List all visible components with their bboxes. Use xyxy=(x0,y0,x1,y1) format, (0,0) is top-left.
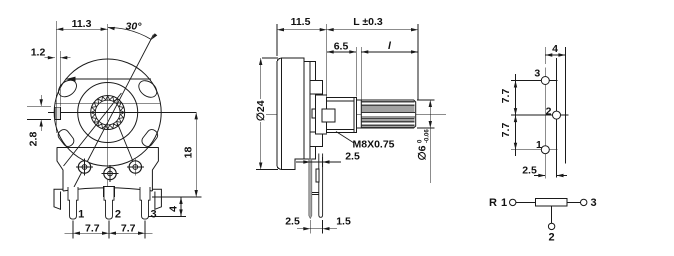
side view: bushing end inner line xyxy=(353,98,355,133)
front view: left support lug xyxy=(54,189,63,209)
front view: terminal hole 1 inner xyxy=(82,165,87,170)
side view: shaft neck top xyxy=(356,99,361,101)
footprint dimension 7.7 (top) xyxy=(515,74,517,115)
front view: slot second edge line xyxy=(64,93,122,166)
front view: terminal hole 1 outer xyxy=(78,161,90,173)
schematic: wire resistor to 3 xyxy=(567,201,581,203)
front view: hole 2 crosshair h xyxy=(102,173,119,175)
front view: hole 3 crosshair v xyxy=(134,159,136,176)
dimension dia 6 shaft xyxy=(417,99,435,101)
schematic: terminal 3 circle xyxy=(581,199,587,205)
side view: plate notch xyxy=(312,109,316,118)
svg-text:11.5: 11.5 xyxy=(291,16,311,28)
dimension 2.5 upper (pin stagger) xyxy=(322,157,324,167)
front view: base bottom arc xyxy=(63,188,152,191)
front view: left crimp tab xyxy=(56,128,76,149)
side view: bushing mount plate xyxy=(316,95,327,134)
svg-text:7.7: 7.7 xyxy=(500,123,512,138)
side view: threaded bushing M8 xyxy=(327,98,357,133)
dimension 18 xyxy=(152,196,202,198)
footprint: pad 2 xyxy=(553,111,561,119)
footprint: pad 2 column line xyxy=(556,58,558,178)
front view: inner ring circle xyxy=(78,83,138,143)
front view: pin 1 xyxy=(68,187,78,219)
side view: pins 1 and 3 (edge-on) xyxy=(309,159,312,219)
front view: cover tab chord line xyxy=(66,78,152,80)
footprint: pad 3 xyxy=(541,77,549,85)
dimension 4 (front) xyxy=(148,215,186,217)
svg-text:1: 1 xyxy=(78,209,84,221)
dimension dia 24 xyxy=(262,57,278,59)
front view: hole 1 crosshair v xyxy=(84,159,86,176)
side view: bracket detail xyxy=(316,169,319,182)
svg-text:∅24: ∅24 xyxy=(255,100,267,121)
svg-text:30°: 30° xyxy=(126,21,143,33)
schematic: wire 1 to resistor xyxy=(516,201,536,203)
front view: terminal hole 2 outer xyxy=(104,167,116,179)
footprint: pad 1 horizontal crosshair xyxy=(511,149,557,151)
front view: shaft knurl serration xyxy=(91,96,124,129)
side view: pin bend step bottom xyxy=(312,193,319,195)
svg-text:3: 3 xyxy=(591,197,597,209)
front view: upper-right notch slot xyxy=(136,77,160,100)
side view: can crimp line xyxy=(281,58,283,170)
dimension 1.2 xyxy=(59,51,61,107)
dimension 6.5 xyxy=(355,47,357,97)
dimension 7.7 / 7.7 xyxy=(72,221,74,239)
footprint: right reference line xyxy=(564,47,566,164)
front view: hole 1 crosshair h xyxy=(76,166,93,168)
svg-text:2: 2 xyxy=(115,209,121,221)
svg-text:4: 4 xyxy=(552,43,558,55)
front view: right support lug xyxy=(152,189,161,209)
dimensions 2.5 / 1.5 bottom (side) xyxy=(309,220,311,234)
schematic: terminal 1 circle xyxy=(510,199,516,205)
front view: terminal hole 3 inner xyxy=(133,165,138,170)
svg-text:2: 2 xyxy=(546,106,552,118)
side view: pin bend step top xyxy=(312,191,319,193)
svg-text:18: 18 xyxy=(183,147,195,159)
front view: anti-rotation tab xyxy=(55,107,61,119)
svg-text:R: R xyxy=(489,197,497,209)
dimension 2.8 xyxy=(27,105,51,107)
front view: base housing outline xyxy=(57,146,158,148)
footprint dimension 7.7 (bottom) xyxy=(515,115,517,156)
side view: shaft slot bottom edge xyxy=(361,116,415,118)
schematic: wiper wire to 2 xyxy=(551,206,553,223)
front view: radial line to hole 3 xyxy=(118,124,136,168)
side view: body can xyxy=(277,58,304,170)
side view: cover plate 2 xyxy=(310,62,316,159)
footprint: pad 3 horizontal crosshair xyxy=(511,80,557,82)
side view: shaft knurl lines xyxy=(361,100,414,102)
dimension 30 degrees xyxy=(108,27,152,39)
svg-text:1: 1 xyxy=(536,139,542,151)
dimension L +/-0.3 xyxy=(417,24,419,100)
front view: vertical centerline xyxy=(107,24,109,197)
front view: left tab wedge xyxy=(66,77,76,82)
svg-text:6.5: 6.5 xyxy=(334,41,349,53)
svg-text:1.5: 1.5 xyxy=(336,216,351,228)
footprint: pad 2 horizontal crosshair xyxy=(511,114,569,116)
front view: terminal hole 2 inner xyxy=(108,171,113,176)
svg-text:2.5: 2.5 xyxy=(345,151,360,163)
schematic: terminal 2 circle xyxy=(548,223,554,229)
dimension 11.5 xyxy=(276,24,278,56)
svg-text:1: 1 xyxy=(501,197,507,209)
side view: thread minor line bottom xyxy=(327,129,354,131)
label M8X0.75 with leader xyxy=(336,132,354,144)
svg-text:2.5: 2.5 xyxy=(522,165,537,177)
side view: upper mounting tab xyxy=(310,81,323,95)
side view: shaft neck bottom xyxy=(356,127,361,129)
svg-text:L ±0.3: L ±0.3 xyxy=(353,16,383,28)
svg-text:M8X0.75: M8X0.75 xyxy=(352,139,394,151)
svg-text:2.5: 2.5 xyxy=(285,216,300,228)
front view: horizontal chord line xyxy=(55,102,161,104)
front view: terminal hole 3 outer xyxy=(129,161,141,173)
front view: horizontal centerline xyxy=(48,111,197,113)
svg-text:2.8: 2.8 xyxy=(28,132,40,147)
dimension 11.3 xyxy=(55,21,57,133)
svg-text:2: 2 xyxy=(548,232,554,244)
schematic: resistor body R xyxy=(536,199,567,207)
svg-text:3: 3 xyxy=(534,68,540,80)
front view: shaft knurl outer circle xyxy=(91,96,125,130)
side view: bushing boss xyxy=(322,109,335,122)
svg-text:7.7: 7.7 xyxy=(500,89,512,104)
footprint dimension 2.5 xyxy=(544,156,546,179)
front view: shaft slot 30-degree line xyxy=(74,35,154,188)
front view: potentiometer body outline circle xyxy=(54,59,161,166)
svg-text:1.2: 1.2 xyxy=(31,47,46,59)
side view: pin 2 (staggered) xyxy=(319,154,323,218)
side view: cover plate 1 xyxy=(304,62,310,159)
svg-text:7.7: 7.7 xyxy=(85,222,100,234)
front view: hole 3 crosshair h xyxy=(127,166,144,168)
side view: thread minor line top xyxy=(327,100,354,102)
footprint dimension 4 xyxy=(544,47,546,64)
svg-text:3: 3 xyxy=(150,209,156,221)
side view: knurled shaft xyxy=(361,100,415,128)
svg-text:-0.06: -0.06 xyxy=(425,129,431,143)
svg-text:∅6: ∅6 xyxy=(417,145,429,160)
side view: centerline xyxy=(266,113,446,115)
svg-text:7.7: 7.7 xyxy=(121,222,136,234)
dimension l (shaft length) xyxy=(360,47,362,100)
side view: shaft slot top edge xyxy=(361,112,415,114)
front view: upper-left notch slot xyxy=(55,77,79,100)
front view: right crimp tab xyxy=(140,128,160,149)
footprint: pad 1 xyxy=(541,146,549,154)
front view: pin 2 wide shoulder xyxy=(104,187,115,197)
footprint: pad column line xyxy=(544,68,546,163)
front view: shaft inner circle xyxy=(95,100,120,125)
svg-text:11.3: 11.3 xyxy=(72,18,92,30)
front view: pin 3 xyxy=(140,187,150,219)
front view: hole 2 crosshair v xyxy=(109,165,111,182)
front view: pin 2 xyxy=(104,187,114,219)
side view: lower mounting tab xyxy=(310,132,323,146)
svg-text:4: 4 xyxy=(168,206,180,212)
